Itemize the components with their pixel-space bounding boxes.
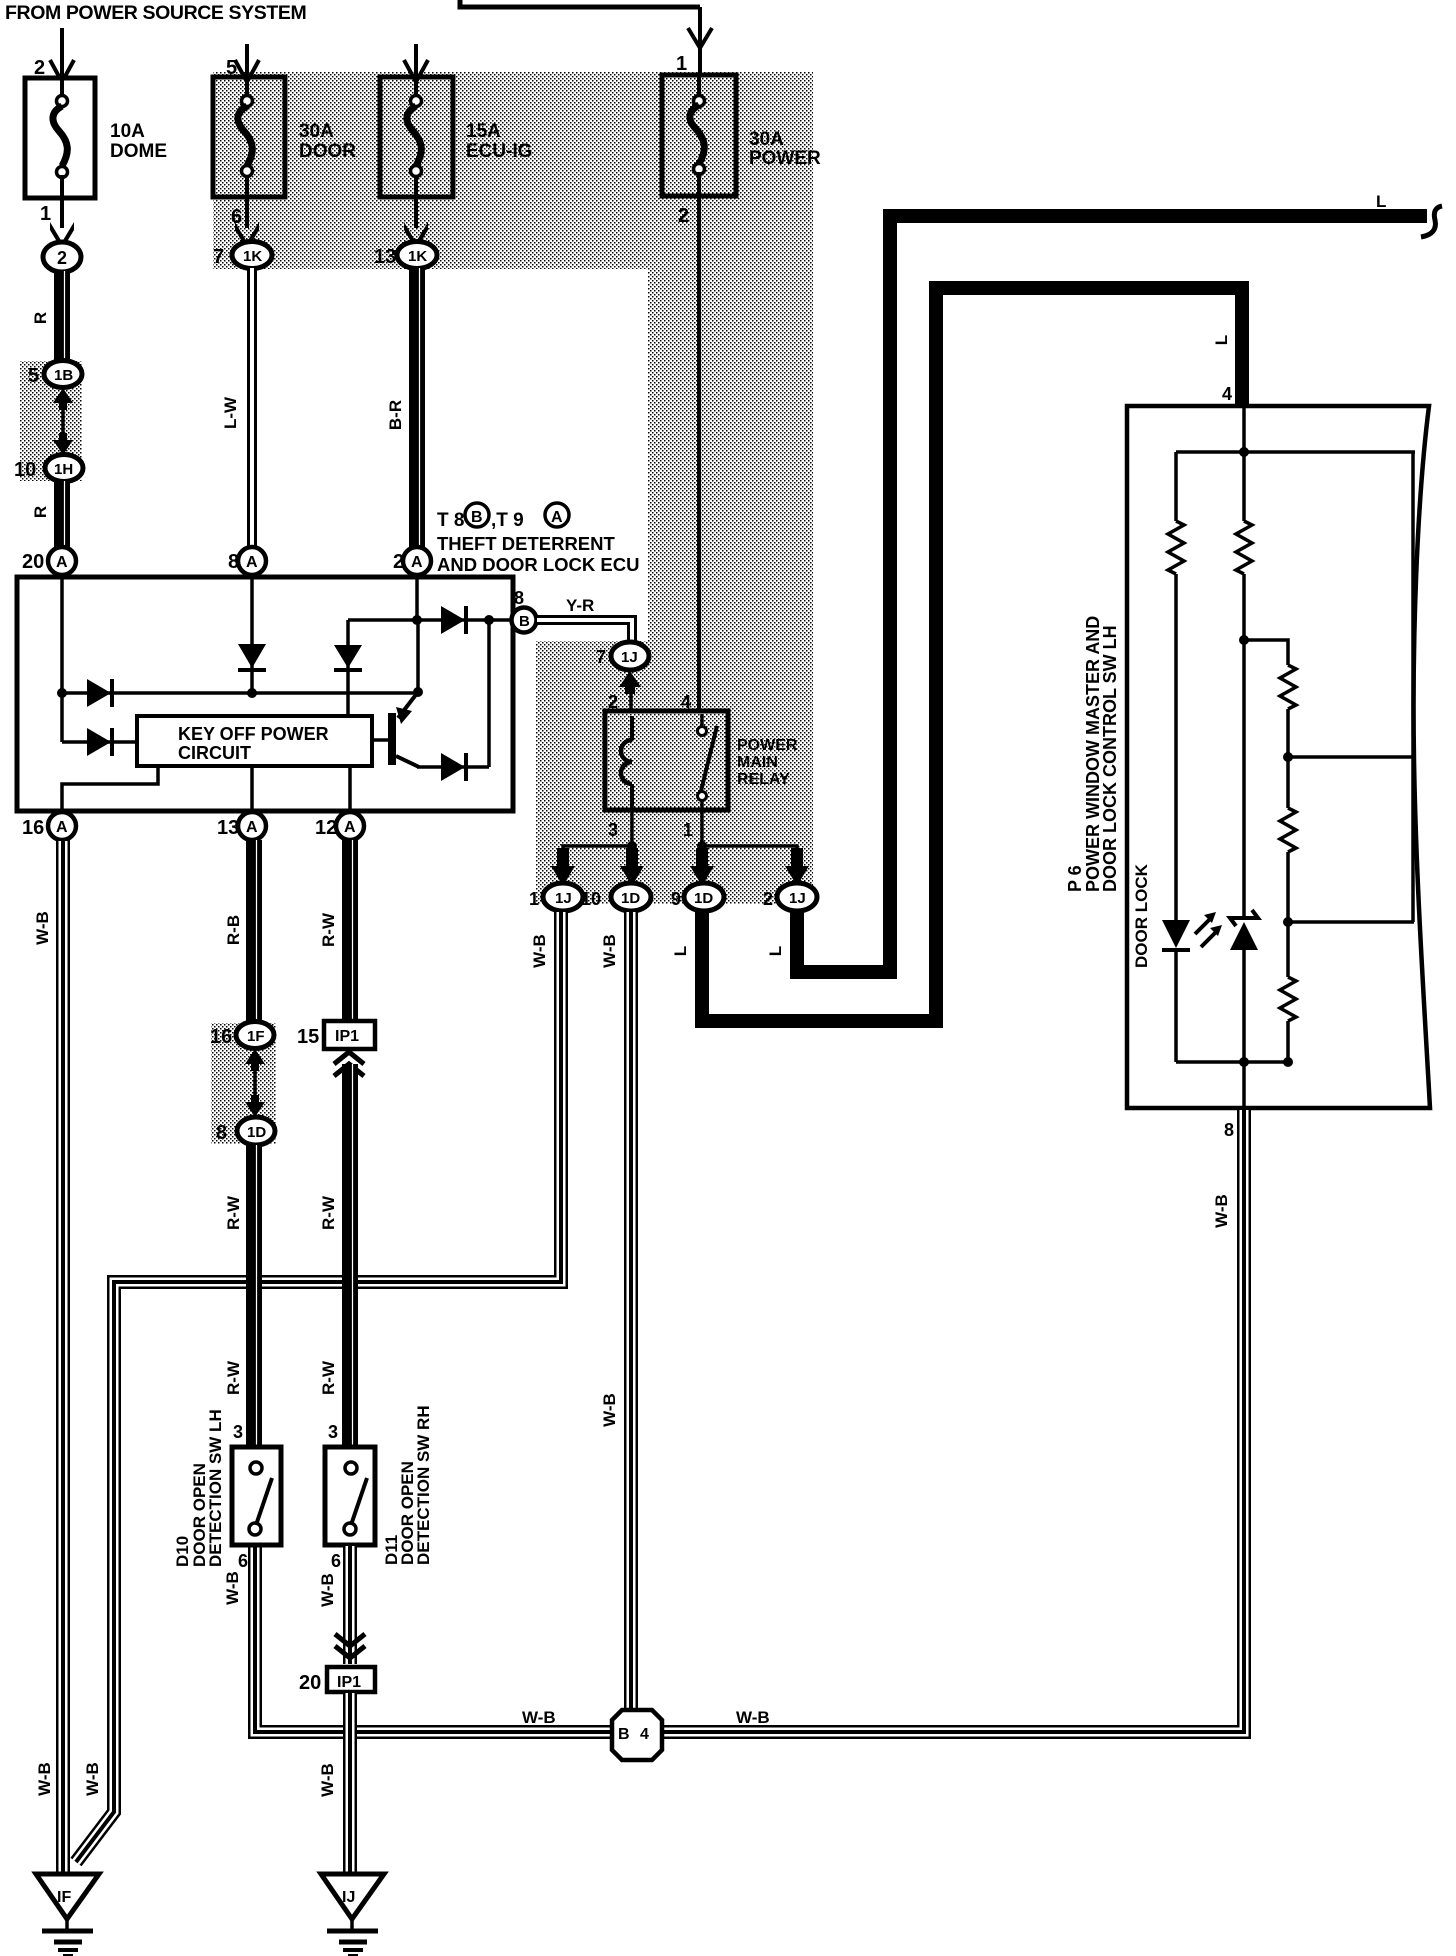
svg-text:1F: 1F [247,1028,265,1045]
wire fuse POWER to relay pin 4 [697,196,701,712]
pin 2 connector A [393,547,431,575]
ground IJ [321,1874,384,1956]
halftone shading band behind fuses [213,72,813,269]
arrow up into 1J [619,671,641,694]
wire internal top bus [1176,450,1415,454]
door open detection sw LH D10 [232,1447,281,1545]
theft deterrent and door lock ECU box [17,577,513,811]
label W-B pin16 bottom [35,1762,54,1796]
pin 5 label fuse DOOR [226,57,237,79]
pin 3 label sw RH [328,1422,338,1442]
svg-text:FROM POWER SOURCE SYSTEM: FROM POWER SOURCE SYSTEM [5,2,306,24]
connector 8 1D [216,1117,275,1145]
pin 12 connector A [315,812,364,840]
svg-text:P 6: P 6 [1065,865,1085,892]
wire W-B switch box pin 8 to junction B4 [662,1110,1244,1732]
diode D3 [87,728,112,756]
arrow into connector 1 1J [551,848,575,886]
svg-text:ECU-IG: ECU-IG [466,141,533,162]
wire diode D5 riser [487,620,491,767]
wire pin 2 internal [415,577,419,620]
diode D6 [441,606,466,634]
svg-text:A: A [56,819,68,836]
pin 2 label fuse DOME [34,57,45,79]
connector 16 1F [210,1022,274,1049]
label 30A DOOR [299,121,356,162]
wire W-B IP1 20 to ground IJ [343,1692,357,1876]
fuse F2 30A DOOR [213,77,285,197]
fuse F3 15A ECU-IG [380,77,453,197]
junction connector B 4 [612,1710,662,1760]
svg-text:R-W: R-W [224,1195,243,1230]
svg-text:L-W: L-W [221,396,240,429]
svg-text:THEFT DETERRENT: THEFT DETERRENT [437,533,616,554]
label R-B [224,915,243,945]
svg-text:2: 2 [763,889,773,909]
label 30A POWER [749,129,821,169]
label R-W upper sw RH [319,1195,338,1230]
pin 6 label sw LH [238,1551,248,1571]
pin 20 connector A [22,547,76,575]
node junction pin8 bus [247,688,257,698]
wire Y-R pin B to connector 1J [537,620,632,643]
wire key off to pin 16 [62,766,158,811]
wire 1J to relay coil pin 2 [629,692,633,712]
svg-text:1: 1 [529,889,539,909]
wire pin 8 internal [250,577,254,693]
node junction pin2 [412,615,422,625]
halftone shading connector 1F-1D patch [211,1023,276,1144]
label B-R [386,400,405,430]
wire W-B connector 1 1J to ground IF [76,911,561,1862]
label L near switch pin 4 [1212,335,1231,345]
svg-text:W-B: W-B [600,934,619,968]
svg-text:DOOR LOCK CONTROL SW LH: DOOR LOCK CONTROL SW LH [1100,625,1120,892]
svg-text:1: 1 [40,203,51,225]
label L near hook [1376,192,1386,211]
wire bottom bus [1176,1060,1288,1064]
svg-text:B-R: B-R [386,400,405,430]
label L near connector 9 [671,946,690,956]
svg-text:30A: 30A [749,129,784,150]
wire key off to pin 13 [250,766,254,811]
svg-text:1D: 1D [247,1124,266,1141]
svg-text:8: 8 [216,1122,227,1144]
svg-text:7: 7 [596,647,606,667]
transistor Q1 [372,692,419,767]
wire 1F to 1D [253,1066,257,1100]
svg-text:A: A [246,554,258,571]
wire branch to key off circuit [62,740,137,744]
label W-B right rail [736,1708,770,1727]
svg-text:20: 20 [299,1672,321,1694]
wire R2 to junction [1242,574,1246,918]
svg-text:T 8: T 8 [437,510,464,531]
wire internal bus y693 [62,691,420,695]
svg-text:W-B: W-B [530,934,549,968]
wire collector riser [416,620,420,692]
wire R-W connector 1D to door open sw LH [254,1145,257,1447]
arrow up into 1F [245,1049,265,1071]
svg-text:10A: 10A [110,121,145,142]
svg-text:POWER: POWER [749,148,821,169]
svg-text:10: 10 [581,889,601,909]
svg-text:POWER: POWER [737,737,798,754]
wire crossbar 757 [1288,755,1414,759]
pin 8 label switch box [1224,1120,1234,1140]
wire zener to pin 8 [1242,950,1246,1108]
diode D2 [238,644,266,670]
svg-text:,T 9: ,T 9 [491,510,524,531]
svg-text:W-B: W-B [83,1762,102,1796]
wire LED to bottom bus [1174,952,1178,1062]
svg-text:10: 10 [14,459,36,481]
svg-text:1J: 1J [789,890,806,907]
diode D1 [87,679,112,707]
connector 5 1B [28,361,82,388]
svg-text:W-B: W-B [600,1393,619,1427]
wire L-W connector 1K to ECU pin 8 [247,268,257,548]
connector 1 1J [529,883,583,911]
node junction bottom middle [1239,1057,1249,1067]
svg-text:KEY OFF POWER: KEY OFF POWER [178,724,329,744]
pin 3 label relay [608,820,618,840]
svg-text:L: L [1376,192,1386,211]
arrow into connector 10 1D [620,848,644,886]
zener diode [1230,910,1258,950]
connector 10 1H [14,455,83,482]
wire middle branch [1242,452,1246,521]
svg-text:16: 16 [22,817,44,839]
label W-B sw LH leg [223,1571,242,1605]
svg-text:9: 9 [671,889,681,909]
svg-text:1K: 1K [243,248,262,265]
pin 6 label fuse DOOR [231,206,242,228]
label W-B pin16 top [33,911,52,945]
label W-B ground IJ leg [318,1763,337,1797]
diode D5 [441,753,466,781]
power window master and door lock control sw box P6 [1127,406,1430,1108]
resistor R3 [1280,665,1296,709]
node junction middle [1239,635,1249,645]
node junction R4 out [1283,917,1293,927]
svg-text:15A: 15A [466,121,501,142]
pin B connector [512,608,537,633]
svg-text:W-B: W-B [33,911,52,945]
label R [31,312,50,324]
arrow into fuse 30A POWER [688,28,712,48]
connector 10 1D [581,883,651,911]
label R-W upper [224,1195,243,1230]
node junction coil out [627,841,637,851]
offpage continuation hook [1421,206,1442,237]
pin 1 label relay [683,820,693,840]
svg-text:L: L [1212,335,1231,345]
connector 15 IP1 [297,1021,375,1049]
pin 8 connector A [228,547,266,575]
svg-text:L: L [671,946,690,956]
connector 7 1K [213,242,272,269]
svg-text:15: 15 [297,1026,319,1048]
svg-text:1H: 1H [54,461,73,478]
wire fuse DOOR to connector 1K [245,197,249,228]
svg-text:1J: 1J [621,649,638,666]
svg-text:A: A [411,554,423,571]
wire branch to R3 [1244,640,1288,665]
svg-text:6: 6 [238,1551,248,1571]
connector 20 IP1 [299,1667,375,1694]
fuse F4 30A POWER [662,75,736,196]
power main relay box [605,711,728,810]
wire from power source to fuse 30A DOOR [245,44,249,76]
svg-text:W-B: W-B [318,1573,337,1607]
wire crossbar 915 [1288,920,1414,924]
door open detection sw RH D11 [325,1447,375,1545]
halftone shading connector 1B-1H patch [20,361,82,481]
svg-text:1D: 1D [694,890,713,907]
label Y-R [566,596,594,615]
wire R3 to junction [1286,709,1290,808]
resistor R1 [1168,521,1184,574]
svg-text:13: 13 [374,246,396,268]
wire relay pin 1 to connectors [702,806,797,862]
wire R-B ECU pin 13 to connector 1F [254,840,257,1023]
pin 13 connector A [217,812,266,840]
svg-text:A: A [551,509,563,526]
pin 3 label sw LH [233,1422,243,1442]
svg-text:A: A [246,819,258,836]
svg-text:W-B: W-B [736,1708,770,1727]
wire W-B sw RH to IP1 20 [343,1545,357,1664]
svg-text:2: 2 [678,205,689,227]
arrow into connector 9 1D [690,848,714,886]
svg-text:7: 7 [213,246,224,268]
label W-B pin8 leg [1212,1194,1231,1228]
node junction top bus [1239,447,1249,457]
svg-text:3: 3 [328,1422,338,1442]
svg-text:5: 5 [28,365,39,387]
pin 4 label switch box [1222,384,1232,404]
ground IF [36,1874,99,1956]
wire feed from power source to fuse 30A POWER [460,0,700,76]
wire R4 to junction [1286,852,1290,977]
fuse F1 10A DOME [25,78,95,198]
pin 8 label B [514,588,524,608]
svg-text:DOME: DOME [110,141,167,162]
arrow down into 1H [53,433,73,455]
pin 16 connector A [22,812,76,840]
label L-W [221,396,240,429]
svg-text:8: 8 [1224,1120,1234,1140]
svg-text:R: R [31,506,50,518]
label D10 DOOR OPEN DETECTION SW LH [173,1409,225,1567]
wire R1 to LED [1174,574,1178,920]
svg-text:2: 2 [57,248,67,268]
label R-W pin 12 [319,912,338,947]
connector oval 2 [43,242,81,272]
relay coil [621,716,632,806]
svg-text:B: B [471,509,483,526]
halftone shading power main relay column [648,269,813,904]
connector 13 1K [374,242,437,269]
svg-text:DETECTION SW RH: DETECTION SW RH [414,1405,433,1565]
svg-text:6: 6 [331,1551,341,1571]
svg-text:1: 1 [683,820,693,840]
connector 7 1J [596,642,649,670]
node junction switch out [697,841,707,851]
diode D4 [334,645,362,670]
wire from power source to fuse 10A DOME [60,28,64,76]
arrow into fuse 10A DOME [50,60,74,82]
pin 2 label relay [608,692,618,712]
label POWER MAIN RELAY [737,737,798,788]
svg-text:IP1: IP1 [335,1028,359,1045]
svg-text:W-B: W-B [223,1571,242,1605]
label W-B sw RH leg [318,1573,337,1607]
svg-text:AND DOOR LOCK ECU: AND DOOR LOCK ECU [437,554,639,575]
wire L connector 2 1J offpage [797,216,1427,972]
arrow down into 1D [245,1095,265,1117]
label T8 T9 THEFT DETERRENT AND DOOR LOCK ECU [437,503,639,575]
wire W-B door open sw LH to junction B4 [255,1545,612,1732]
label R [31,506,50,518]
node junction diode D6 out [484,615,494,625]
svg-text:20: 20 [22,551,44,573]
label W-B rail bottom [83,1762,102,1796]
wire R connector 1H to ECU pin 20 [62,481,65,548]
wire to pin B [489,618,515,622]
svg-text:R-B: R-B [224,915,243,945]
svg-text:R-W: R-W [319,1195,338,1230]
svg-text:R-W: R-W [319,1360,338,1395]
svg-text:CIRCUIT: CIRCUIT [178,743,251,763]
svg-text:L: L [766,946,785,956]
pin 4 label relay [681,692,691,712]
wire internal y620 [348,618,489,622]
label P6 power window master and door lock control sw LH [1065,616,1120,892]
node junction pin20 bus [57,688,67,698]
wire R5 to bottom bus [1286,1021,1290,1062]
svg-text:W-B: W-B [1212,1194,1231,1228]
wire L connector 9 1D to switch pin 4 [702,288,1242,1021]
wire right column [1411,452,1415,922]
pin 1 label fuse DOME [40,203,51,225]
resistor R2 [1236,521,1252,574]
label W-B connector 10 leg [600,934,619,968]
arrow double chevron into IP1 20 [335,1634,365,1658]
wire B-R connector 1K to ECU pin 2 [417,268,420,548]
svg-text:RELAY: RELAY [737,771,790,788]
arrow into connector 2 1J [785,848,809,886]
wire R-W IP1 to door open sw RH [350,1064,353,1447]
label 15A ECU-IG [466,121,533,162]
connector 9 1D [671,883,724,911]
arrow double chevron into IP1 15 [334,1052,364,1076]
svg-text:DOOR: DOOR [299,141,356,162]
wire key off to pin 12 [348,766,352,811]
wire fuse ECU-IG to connector 1K [414,197,418,228]
svg-text:IF: IF [57,1889,71,1906]
label 10A DOME [110,121,167,162]
label W-B left rail [522,1708,556,1727]
svg-text:3: 3 [233,1422,243,1442]
svg-text:1K: 1K [408,248,427,265]
wire R-W ECU pin 12 to IP1 [350,840,353,1021]
arrow into connector 13 1K [404,222,428,250]
svg-text:R: R [31,312,50,324]
node junction collector [413,687,423,697]
wire left branch [1174,452,1178,521]
svg-text:DOOR LOCK: DOOR LOCK [1132,863,1151,968]
label R-W lower [224,1360,243,1395]
svg-text:MAIN: MAIN [737,754,778,771]
wire pin 4 internal [1242,408,1246,452]
key off power circuit box [137,716,372,766]
svg-text:R-W: R-W [319,912,338,947]
label R-W lower sw RH [319,1360,338,1395]
svg-text:R-W: R-W [224,1360,243,1395]
connector 2 1J [763,883,817,911]
svg-text:W-B: W-B [318,1763,337,1797]
arrow into connector 1K [235,222,259,250]
svg-text:A: A [56,554,68,571]
svg-text:DETECTION SW LH: DETECTION SW LH [206,1409,225,1567]
wire R connector 2 to 1B [62,271,65,362]
arrow into connector 2 [50,222,74,250]
LED indicator [1162,912,1222,950]
svg-text:30A: 30A [299,121,334,142]
svg-text:1D: 1D [621,890,640,907]
wire from power source to fuse 15A ECU-IG [414,44,418,76]
svg-text:IJ: IJ [342,1889,355,1906]
title FROM POWER SOURCE SYSTEM [5,2,306,24]
svg-text:4: 4 [1222,384,1232,404]
svg-text:Y-R: Y-R [566,596,594,615]
svg-text:B: B [519,613,530,630]
pin 6 label sw RH [331,1551,341,1571]
svg-text:IP1: IP1 [337,1674,361,1691]
resistor R4 [1280,808,1296,852]
relay switch contact [698,714,718,806]
label W-B connector 1 leg [530,934,549,968]
arrow into fuse 30A DOOR [235,60,259,82]
wire relay pin 3 to connectors [563,806,632,862]
node junction bottom right [1283,1057,1293,1067]
wire branch to diode D4 [346,620,350,716]
wire W-B connector 10 1D to junction B4 [624,911,638,1712]
arrow up into 1B [53,388,73,410]
svg-text:1J: 1J [555,890,572,907]
resistor R5 [1280,977,1296,1021]
node junction R3 out [1283,752,1293,762]
label D11 DOOR OPEN DETECTION SW RH [382,1405,433,1565]
svg-text:1: 1 [676,53,687,75]
label DOOR LOCK [1132,863,1151,968]
svg-text:W-B: W-B [522,1708,556,1727]
wire emitter to diode D5 [417,765,489,769]
svg-text:1B: 1B [54,367,73,384]
svg-text:8: 8 [514,588,524,608]
svg-text:A: A [344,819,356,836]
svg-text:W-B: W-B [35,1762,54,1796]
label W-B rail mid [600,1393,619,1427]
wire pin 20 internal [60,577,64,742]
pin 1 label fuse POWER [676,53,687,75]
pin 2 label fuse POWER [678,205,689,227]
svg-text:16: 16 [210,1026,232,1048]
label L near connector 2 [766,946,785,956]
svg-text:3: 3 [608,820,618,840]
